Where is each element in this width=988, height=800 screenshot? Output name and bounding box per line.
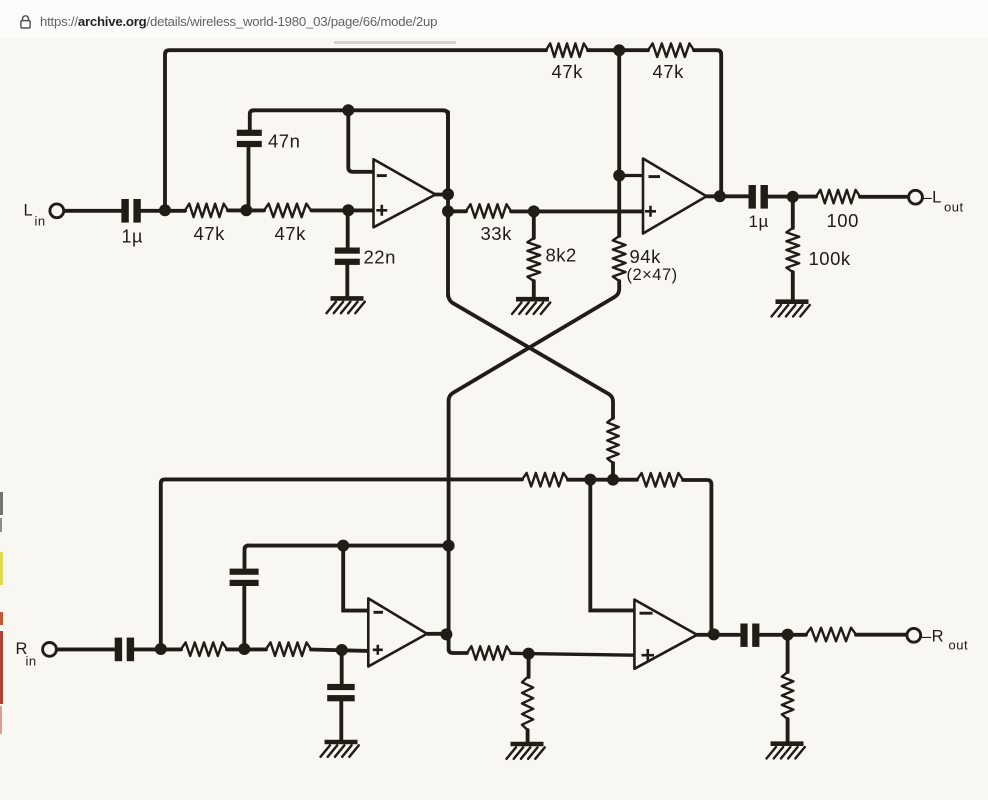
capacitor C7 [327,651,355,740]
label Lin [24,202,46,229]
node U2 output junction [714,190,726,202]
ground for C7 [321,742,359,757]
node A2 junction [155,643,167,655]
node D2 junction [336,644,348,656]
svg-text:out: out [944,200,964,215]
scan smudge artifact [334,41,456,44]
label R7 2x47 [627,266,678,284]
terminal Lout [909,190,923,204]
resistor R2 47k [264,204,311,218]
wire U2 inverting input [619,174,643,177]
scan edge mark orange [0,612,3,625]
resistor R10 100 [816,190,860,204]
scan edge mark gray 1 [0,492,3,515]
wire feedback of U3 [248,544,449,548]
svg-text:100k: 100k [809,248,851,269]
ground for R17 [767,744,805,759]
svg-text:8k2: 8k2 [546,245,577,266]
browser url row [0,0,988,38]
ground for R9 [772,302,810,317]
node U4 output junction [708,628,720,640]
capacitor C4 1u [749,185,768,209]
resistor R16 [637,473,683,487]
wire R10 to Lout terminal [860,195,907,199]
ground for R6 [512,299,550,314]
label -Lout [923,189,964,215]
wire R5 to U2 plus input [511,209,643,213]
capacitor C1 1u [121,199,140,223]
label C4 1u [749,212,769,231]
op-amp U2 [643,159,707,234]
wire C4 to R10 [768,195,816,199]
node C junction [342,104,354,116]
resistor R13 [467,646,511,660]
label C2 47n [268,131,300,152]
svg-text:L: L [24,202,34,220]
resistor R18 [806,628,856,642]
wire L input row [64,208,374,212]
label R2 47k [275,223,307,244]
node B2 junction [238,643,250,655]
scan edge mark yellow [0,552,3,585]
resistor R17 [782,636,794,742]
svg-text:out: out [949,638,969,653]
svg-text:in: in [35,214,46,229]
node B junction [240,204,252,216]
wire node A to top feedback rail [165,50,546,208]
label R10 100 [827,210,859,231]
node C2b junction on crossfeed [443,540,455,552]
node E junction [528,205,540,217]
label C3 22n [364,247,396,268]
svg-text:47k: 47k [275,223,307,244]
label C1 1u [122,227,143,247]
wire U2 output [707,194,750,198]
scan edge mark faint red [0,706,2,734]
resistor R8 crossfeed [607,418,619,463]
wire R18 to Rout terminal [856,633,907,637]
svg-text:47k: 47k [653,61,685,82]
op-amp U4 [634,600,697,669]
label R3 47k [552,61,584,82]
wire U1 output to R5 [448,209,466,213]
resistor R3 47k top [546,43,588,57]
wire crossfeed from U1 output to R8 [448,293,613,418]
node U1 output upper junction [442,188,454,200]
terminal Lin [50,204,64,218]
node G junction U2 inverting [613,170,625,182]
resistor R11 [181,642,227,656]
wire U1 output [436,112,449,296]
node H junction [787,191,799,203]
wire node A2 to bottom feedback rail [161,479,522,647]
url text [40,14,437,29]
wire top feedback rail resistors row [588,50,721,194]
label R9 100k [809,248,851,269]
label R1 47k [194,223,226,244]
capacitor C2 47n [237,110,262,205]
node C2 junction [337,540,349,552]
resistor R9 100k [786,198,799,300]
scan edge mark gray 2 [0,518,2,532]
node E2 junction [523,648,535,660]
wire R input row [57,649,369,651]
capacitor C5 1u [115,638,134,662]
node H2 junction [782,629,794,641]
resistor R7 94k [613,236,626,281]
capacitor C6 [230,546,259,647]
node U3 output junction [440,628,452,640]
wire crossfeed from R7 to U3 output [449,281,620,635]
wire node F down to U2 inverting input [617,52,621,236]
wire node F2 down to U4 inverting input [590,481,634,610]
capacitor C3 22n [335,213,360,297]
wire feedback of U1 (node C) [253,110,448,190]
node F2b junction crossfeed [607,474,619,486]
resistor R12 [266,642,311,656]
wire U3 inverting input [343,547,368,611]
label R7 94k [630,246,662,267]
resistor R15 [522,473,568,487]
label R5 33k [481,223,513,244]
terminal Rout [907,628,921,642]
svg-text:94k: 94k [630,246,662,267]
svg-text:22n: 22n [364,247,396,268]
resistor R1 47k [185,204,228,218]
node D junction [342,204,354,216]
svg-text:100: 100 [827,210,859,231]
wire R8 to bottom rail [611,463,615,479]
resistor R14 [522,655,533,742]
svg-text:(2×47): (2×47) [627,266,678,284]
svg-text:47k: 47k [552,61,584,82]
scan edge mark red [0,631,3,704]
svg-text:47n: 47n [268,131,300,152]
svg-text:33k: 33k [481,223,513,244]
wire bottom feedback rail resistors row [568,480,711,632]
svg-text:–R: –R [922,628,944,646]
svg-text:1µ: 1µ [749,212,769,231]
op-amp U1 [374,159,436,227]
wire R13 to U4 plus input [511,653,634,655]
resistor R4 47k top [648,43,694,57]
wire C8 to R18 [760,633,807,637]
label R6 8k2 [546,245,577,266]
terminal Rin [43,643,57,657]
resistor R5 33k [466,204,511,218]
capacitor C8 1u [740,624,759,647]
ground for C3 [327,298,365,313]
node F2 junction [584,474,596,486]
ground for R14 [507,744,545,759]
wire U3 output elbow to R13 [427,634,467,653]
svg-text:47k: 47k [194,223,226,244]
wire U1 inverting input [348,112,373,172]
label -Rout [922,628,968,653]
svg-text:in: in [26,654,37,669]
label R4 47k [653,61,685,82]
node F junction top rail [613,44,625,56]
svg-text:–L: –L [923,189,942,207]
node U1 output lower junction [442,205,454,217]
label Rin [16,640,37,669]
node A junction [159,204,171,216]
wire U4 output [697,633,739,637]
svg-text:1µ: 1µ [122,227,143,247]
resistor R6 8k2 [527,213,540,298]
op-amp U3 [368,598,427,666]
lock icon [18,14,33,31]
